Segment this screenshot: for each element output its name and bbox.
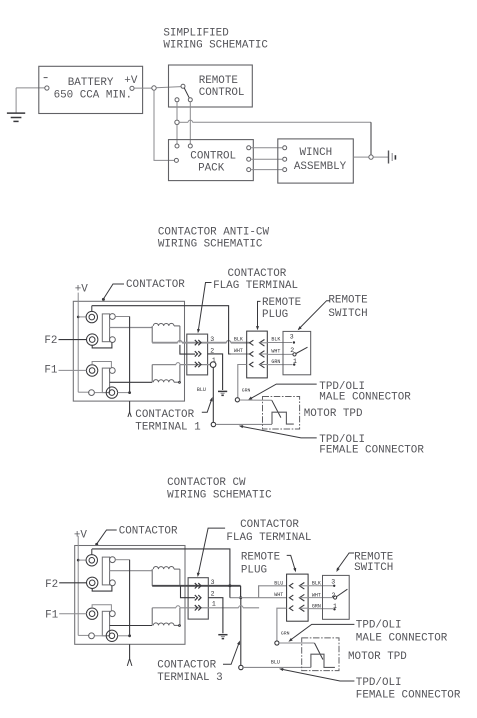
svg-text:F2: F2 bbox=[44, 335, 57, 347]
svg-text:REMOTE: REMOTE bbox=[262, 297, 301, 309]
svg-text:+V: +V bbox=[75, 284, 89, 296]
svg-text:CONTACTOR: CONTACTOR bbox=[240, 519, 299, 531]
svg-text:+V: +V bbox=[124, 75, 138, 87]
svg-text:FLAG TERMINAL: FLAG TERMINAL bbox=[226, 532, 311, 544]
svg-text:MALE CONNECTOR: MALE CONNECTOR bbox=[356, 633, 448, 645]
svg-text:GRN: GRN bbox=[281, 630, 290, 636]
svg-text:CONTACTOR ANTI-CW: CONTACTOR ANTI-CW bbox=[158, 227, 270, 239]
svg-text:TPD/OLI: TPD/OLI bbox=[356, 620, 402, 632]
svg-text:+V: +V bbox=[74, 530, 88, 542]
svg-text:BATTERY: BATTERY bbox=[68, 77, 114, 89]
svg-text:BLU: BLU bbox=[197, 387, 206, 393]
svg-text:3: 3 bbox=[290, 333, 294, 340]
svg-text:F1: F1 bbox=[45, 609, 59, 621]
svg-text:TERMINAL 1: TERMINAL 1 bbox=[135, 421, 201, 433]
svg-text:1: 1 bbox=[212, 601, 216, 608]
svg-text:FEMALE CONNECTOR: FEMALE CONNECTOR bbox=[356, 689, 461, 701]
svg-text:WIRING SCHEMATIC: WIRING SCHEMATIC bbox=[167, 490, 272, 502]
svg-text:WIRING SCHEMATIC: WIRING SCHEMATIC bbox=[158, 239, 263, 251]
svg-text:CONTACTOR: CONTACTOR bbox=[119, 525, 178, 537]
svg-text:SIMPLIFIED: SIMPLIFIED bbox=[163, 28, 228, 40]
svg-text:GRN: GRN bbox=[242, 388, 251, 394]
svg-text:F2: F2 bbox=[45, 579, 58, 591]
svg-text:CONTROL: CONTROL bbox=[190, 151, 236, 163]
svg-text:PLUG: PLUG bbox=[262, 309, 288, 321]
svg-text:GRN: GRN bbox=[271, 359, 280, 365]
svg-text:BLK: BLK bbox=[234, 336, 243, 342]
svg-text:BLK: BLK bbox=[271, 337, 280, 343]
svg-text:PACK: PACK bbox=[198, 162, 225, 174]
svg-text:BLU: BLU bbox=[271, 660, 280, 666]
svg-text:CONTACTOR: CONTACTOR bbox=[135, 409, 194, 421]
svg-text:PLUG: PLUG bbox=[241, 565, 267, 577]
svg-text:ASSEMBLY: ASSEMBLY bbox=[294, 161, 347, 173]
svg-text:WHT: WHT bbox=[271, 348, 280, 354]
svg-text:BLU: BLU bbox=[274, 580, 283, 586]
svg-text:FLAG TERMINAL: FLAG TERMINAL bbox=[213, 280, 298, 292]
svg-text:WINCH: WINCH bbox=[300, 147, 333, 159]
svg-text:2: 2 bbox=[211, 590, 215, 597]
svg-text:650 CCA MIN.: 650 CCA MIN. bbox=[54, 89, 132, 101]
svg-text:CONTACTOR: CONTACTOR bbox=[126, 279, 185, 291]
svg-text:SWITCH: SWITCH bbox=[354, 562, 393, 574]
svg-text:CONTROL: CONTROL bbox=[199, 87, 245, 99]
svg-text:F1: F1 bbox=[44, 365, 58, 377]
svg-text:REMOTE: REMOTE bbox=[328, 295, 367, 307]
svg-text:WHT: WHT bbox=[234, 348, 243, 354]
svg-text:TPD/OLI: TPD/OLI bbox=[356, 677, 402, 689]
svg-text:WIRING SCHEMATIC: WIRING SCHEMATIC bbox=[163, 40, 268, 52]
svg-text:CONTACTOR: CONTACTOR bbox=[228, 268, 287, 280]
svg-text:REMOTE: REMOTE bbox=[199, 75, 238, 87]
svg-text:MOTOR TPD: MOTOR TPD bbox=[348, 651, 407, 663]
svg-text:CONTACTOR CW: CONTACTOR CW bbox=[167, 477, 246, 489]
svg-text:MALE CONNECTOR: MALE CONNECTOR bbox=[319, 391, 411, 403]
svg-text:TERMINAL 3: TERMINAL 3 bbox=[157, 672, 222, 684]
svg-text:WHT: WHT bbox=[274, 592, 283, 598]
svg-text:REMOTE: REMOTE bbox=[241, 552, 280, 564]
svg-text:CONTACTOR: CONTACTOR bbox=[157, 659, 216, 671]
svg-text:3: 3 bbox=[331, 579, 335, 586]
svg-text:MOTOR TPD: MOTOR TPD bbox=[304, 408, 363, 420]
svg-text:FEMALE CONNECTOR: FEMALE CONNECTOR bbox=[319, 445, 424, 457]
svg-text:SWITCH: SWITCH bbox=[328, 308, 367, 320]
